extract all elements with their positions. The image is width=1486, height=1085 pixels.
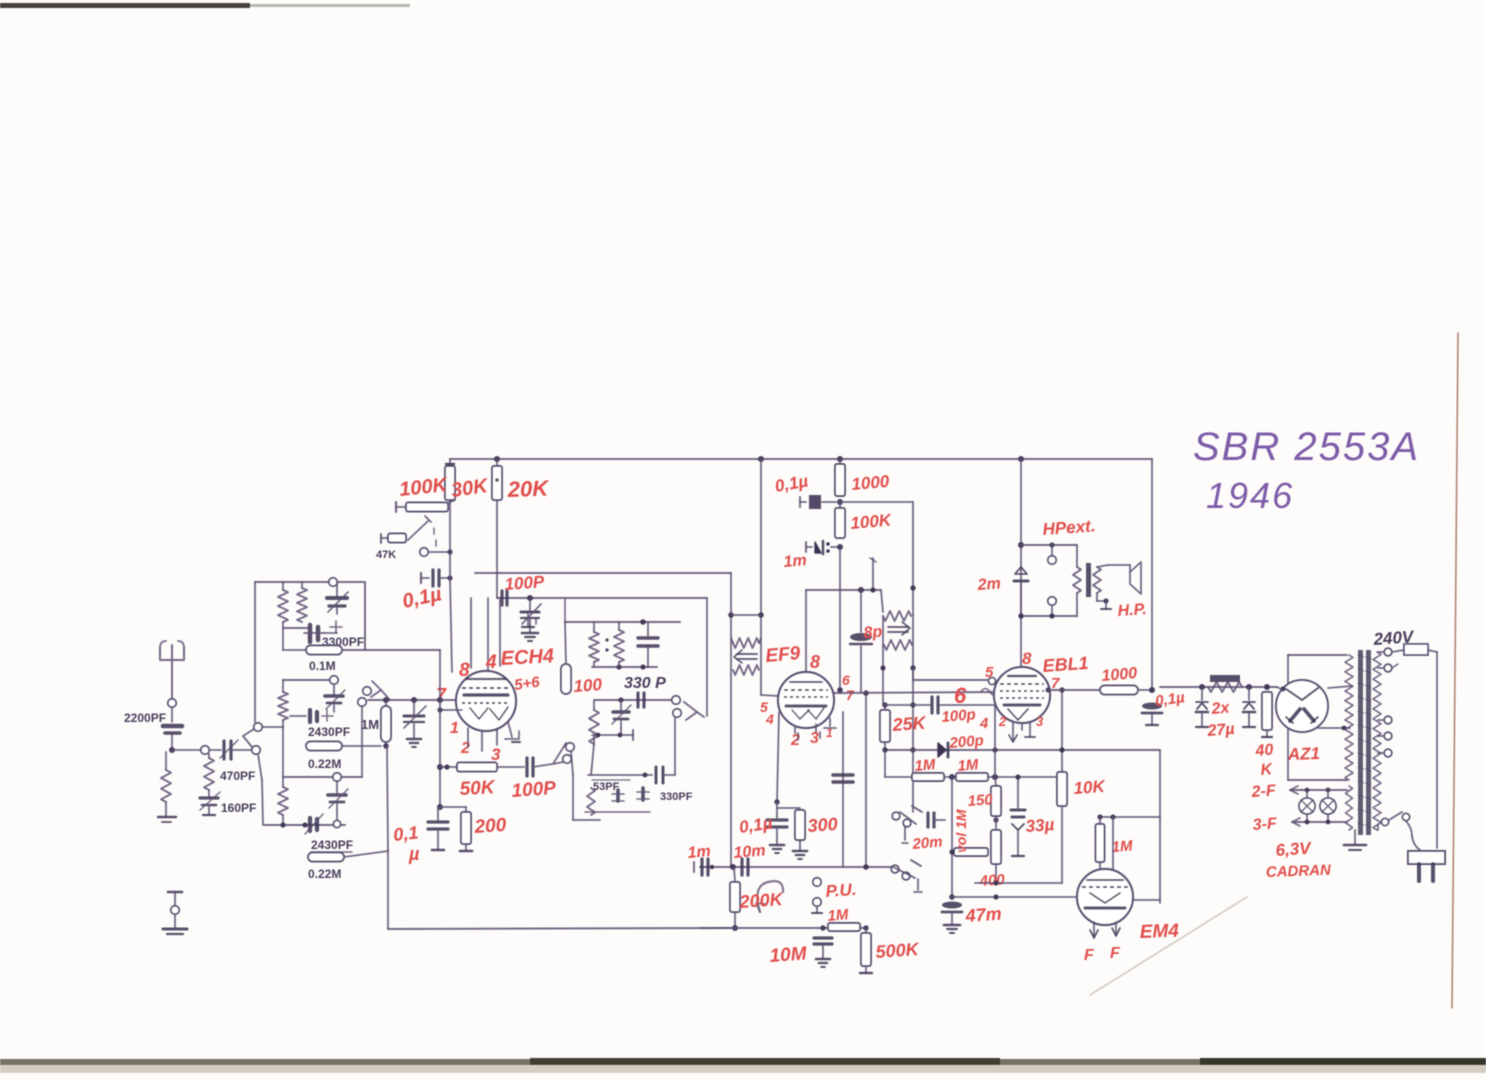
resistor 1M a [912,773,944,781]
svg-text:10m: 10m [733,842,766,862]
svg-text:1M: 1M [1111,838,1133,856]
capacitor 1m pu [694,859,714,875]
node 840-502 [837,499,843,505]
transformer heater winding [1346,786,1353,830]
svg-text:6,3V: 6,3V [1275,838,1313,860]
label 53PF [592,780,630,793]
wire HP bottom [1018,593,1077,619]
choke filter [1208,675,1242,692]
tap primary 1 [1378,664,1398,672]
transformer HV winding [1345,655,1353,780]
resistor 40K [1262,692,1272,737]
label 0.1M [309,659,336,673]
label 400 [978,871,1006,890]
capacitor 160PF [200,792,220,815]
transformer HP prim [1073,567,1081,593]
svg-text:500K: 500K [875,939,921,962]
wire selB down [361,706,363,777]
label HPext [1042,516,1096,539]
svg-text:5+6: 5+6 [513,673,541,693]
capacitor 27u a [1196,687,1208,727]
wire antenna row [172,749,201,751]
antenna [160,641,184,699]
wire y598 [497,597,707,599]
resistor 1M b [956,773,988,781]
label 27u [1206,721,1235,740]
wire 1152 to 750 [1152,690,1160,750]
svg-text:10M: 10M [769,943,809,967]
svg-text:2x: 2x [1210,699,1231,718]
label 0,1 cath [738,813,774,836]
svg-text:F: F [1110,945,1121,962]
node 873-590 [870,587,875,592]
svg-text:47K: 47K [376,549,396,561]
label EF9-8 [810,652,820,672]
node g1-440 [437,697,443,703]
tap primary 4 [1378,749,1392,757]
node filt2 [1246,684,1252,690]
wire 3-F [1292,818,1347,826]
wire filt [1160,686,1277,688]
label 20m [911,833,943,853]
label AZ1 [1286,744,1320,764]
svg-text:0.22M: 0.22M [308,867,341,881]
coil box B [283,680,334,692]
label EF9-4 [765,711,774,727]
wire tank sec bot [592,730,633,744]
node 735-928 [732,925,738,931]
node 733-867 [730,864,736,870]
resistor 0.1M [283,628,342,655]
label 40K [1254,741,1274,778]
pins ECH4 bottom [468,722,520,751]
wire pin col3 [499,598,501,666]
label 3300PF [322,635,364,649]
wire grid1 ECH4 [368,699,456,701]
wire EF9 in [761,695,779,696]
capacitor 0,1u input [421,570,453,586]
fuse [1392,644,1437,655]
wire HPext col [1018,542,1077,548]
label 150 [967,791,994,810]
resistor 400 [991,816,1001,883]
svg-text:100P: 100P [504,572,546,594]
wire 30K down [496,500,498,598]
svg-text:3-F: 3-F [1252,815,1278,834]
svg-text:vol 1M: vol 1M [953,809,969,853]
terminal PU2 [812,898,822,913]
wire 100K down [449,500,451,551]
capacitor 10M [814,928,832,967]
tap primary 3 [1378,732,1392,740]
coil tank2 [605,622,624,662]
capacitor 100P [497,758,552,776]
svg-text:200K: 200K [738,889,785,912]
label 1m cap [783,552,808,571]
label EF9-6 [842,672,850,688]
core HP [1086,563,1091,597]
wire to plug [1412,836,1420,850]
coil tankC [587,788,595,815]
terminal tank1 [672,696,680,704]
label 50K [459,777,496,800]
label 47K [376,549,396,561]
capacitor 200p [885,743,948,757]
svg-text:50K: 50K [459,777,496,800]
wire box bottom [975,880,1062,885]
svg-text:F: F [1084,947,1095,964]
label CADRAN [1266,862,1333,881]
wire tankC bot [585,811,650,813]
svg-text:7: 7 [846,687,855,703]
resistor 30K [492,459,502,500]
svg-text:2200PF: 2200PF [124,711,166,725]
label EBL1-5 [985,664,994,681]
svg-text:300: 300 [807,814,838,836]
plug [1408,851,1445,881]
wire y777 [885,750,1062,777]
svg-text:1M: 1M [914,756,937,775]
capacitor 100p tap [502,591,507,605]
wire y867 [700,866,893,868]
coil IF2b [884,640,912,650]
label F2 [1110,945,1121,962]
node 995-777 [992,705,998,780]
node EBL plate out [1045,687,1050,692]
node g1-414 [411,697,417,703]
wire selA up [254,582,256,722]
tube AZ1 [1276,680,1328,732]
pins EM4 [1090,922,1120,938]
label 330P [624,675,666,692]
switch band sel B [358,681,390,706]
node bus-1021 [1018,456,1024,462]
label 500K [875,939,921,962]
label 1M em4 [1111,838,1133,856]
label 33u [1025,815,1055,836]
scan bottom band [0,1058,1486,1073]
trimmer boxC [328,781,348,820]
title SBR 2553A [1193,425,1420,469]
switch tank left [553,743,574,764]
switch wave2a [892,806,922,843]
svg-text:160PF: 160PF [221,801,256,815]
svg-text:P.U.: P.U. [825,880,857,901]
capacitor 470PF [209,740,252,759]
label ECH4-3 [491,745,501,764]
capacitor tank sec [638,693,644,707]
node filt1 [1199,684,1205,690]
svg-text:1946: 1946 [1206,475,1294,516]
label EBL1-8 [1022,649,1032,668]
svg-text:8: 8 [1022,649,1032,668]
wire pin1 ECH4 [437,707,462,712]
wire x1160 [1152,690,1160,903]
label EBL1-7 [1051,675,1060,692]
svg-text:53PF: 53PF [593,781,620,793]
core IF2 [888,622,910,635]
label EBL1-2 [998,714,1007,729]
wire 1M down [387,746,388,929]
terminal tank2 [673,709,681,717]
node g1-386 [383,697,389,703]
capacitor 0,1u osc [428,807,448,850]
label 1M [361,717,379,732]
svg-text:470PF: 470PF [220,769,255,783]
label 2200PF [124,711,166,725]
wire EF9 topcap [805,590,807,674]
coil box A [255,582,365,650]
svg-text:H.P.: H.P. [1117,601,1147,620]
svg-text:SBR 2553A: SBR 2553A [1193,425,1420,469]
label 20K [506,476,550,503]
coil IF2a [883,611,911,621]
scan right line [1452,333,1458,1008]
label 2x [1210,699,1231,718]
scan crease bottom-right [1090,897,1247,995]
wire 0.22M to 1M [342,745,381,747]
label H.P. [1117,601,1147,620]
svg-text:6: 6 [954,683,967,708]
label 100P [511,778,557,802]
svg-text:1: 1 [450,720,459,737]
terminal EBL g [989,678,996,685]
svg-text:330 P: 330 P [624,675,666,692]
svg-text:0,1: 0,1 [392,822,419,845]
svg-text:1m: 1m [783,552,808,571]
wire mains right [1436,652,1438,848]
coil box C [283,776,362,778]
wire boxC bottom [264,822,345,827]
wire tank sec top [595,697,672,702]
label ECH4-1 [450,720,459,737]
label ECH4-8 [459,660,470,681]
resistor 1000 screen [835,459,845,496]
label 100K screen [850,510,894,533]
antenna terminal [168,699,176,722]
svg-text:330PF: 330PF [660,791,693,803]
wire boxB bottom [282,727,284,777]
wire boxA mid [283,627,310,629]
resistor 100K screen [835,502,845,538]
label 300 [807,814,838,836]
label 470PF [220,769,255,783]
label 1M b [957,756,980,775]
wire osc grid col [450,551,452,672]
terminal PU1 [813,878,821,886]
label 100p ebl [941,706,989,732]
label 100K [398,474,449,501]
label 100P top [504,572,546,594]
switch band sel A [243,723,262,754]
pins EBL1 [1009,722,1035,742]
wire AZ1 left [1277,687,1283,690]
capacitor 2430PF [290,710,333,722]
wire grid col [842,712,844,867]
capacitor 330PF ser [656,767,675,783]
svg-text:100P: 100P [511,778,557,802]
wire pin col2 [487,598,489,670]
label 160PF [221,801,256,815]
resistor 0.22M C [308,851,388,862]
label EF9-3 [810,730,819,747]
title 1946 [1206,475,1294,516]
transformer primary winding [1373,652,1381,830]
resistor 470 chain [204,754,214,796]
tube EBL1 [994,667,1050,723]
resistor boxA [278,582,288,628]
svg-text:150: 150 [967,791,994,810]
svg-text:200p: 200p [948,732,985,752]
svg-text:3: 3 [491,745,501,764]
switch wave2b [891,860,922,892]
wire AZ1 top [1288,655,1347,683]
trimmer to gnd [521,598,541,641]
node 861-590 [858,587,864,593]
ground transformer [1344,830,1366,850]
svg-text:100K: 100K [850,510,894,533]
ground ECH4 top [522,614,536,627]
wire y928 [700,925,869,930]
svg-text:6: 6 [842,672,850,688]
label 8p [863,623,883,642]
resistor 100ohm [561,622,571,694]
wire selC down [258,754,263,825]
label EF9-5 [760,699,768,715]
resistor 500K [860,928,872,973]
wire EM4 g2 [1112,817,1114,872]
wire 952 col [949,777,955,900]
label 1M a [914,756,937,775]
label 25K [891,713,928,735]
svg-text:2m: 2m [976,575,1001,594]
tube ECH4 [456,671,516,731]
label ECH4-7 [436,685,447,705]
label vol 1M [953,809,969,853]
node 952-777 [949,774,955,780]
switch tank right [684,702,704,720]
svg-text:8: 8 [810,652,820,672]
tap primary top [1378,648,1392,656]
switch wave [381,516,436,546]
label ECH4-4 [485,652,497,673]
svg-text:3: 3 [1036,714,1044,729]
node 913-588 [910,585,915,590]
coil IF1b [733,665,759,675]
wire EBL grid [913,668,988,680]
wire tank grid [706,598,708,716]
svg-text:47m: 47m [964,904,1002,927]
label 200K [738,889,785,912]
label 10K [1073,777,1107,798]
resistor ant gnd [158,752,176,822]
svg-text:4: 4 [765,711,774,727]
wire cath EF9 [774,712,779,805]
wire x1152 [1149,459,1155,693]
terminal boxC [333,773,341,781]
label 1M pu [827,906,850,925]
wire if1 top [731,614,761,616]
resistor 25K [880,702,890,752]
tank box top [565,598,680,625]
capacitor tank 330P [638,622,658,667]
svg-text:0.1M: 0.1M [309,659,336,673]
core IF1 [734,650,757,663]
coil IF1a [731,638,761,648]
wire AZ1 bottom [1288,729,1347,780]
trimmer boxB [325,684,345,712]
label 200p [948,732,985,752]
wire x731 [728,573,734,867]
ground probe lower-left [163,892,187,934]
wire EM4 top [1097,814,1160,819]
svg-text:1000: 1000 [1101,665,1138,685]
node ant [169,747,175,753]
svg-text:1M: 1M [827,906,850,925]
capacitor 20m [928,813,945,827]
switch contact [420,548,453,556]
transformer HP sec [1093,567,1101,593]
lamp 1 [1299,790,1315,822]
speaker HP [1097,562,1141,609]
lamp 2 [1320,790,1336,822]
wire pin4 col [470,598,472,668]
terminal HP1 [1048,545,1056,564]
label 2m [976,575,1001,594]
wire 866 up [863,690,869,870]
label 6,3V [1275,838,1313,860]
label 10m [733,842,766,862]
svg-text:µ: µ [408,844,420,864]
resistor 0.22M [306,742,342,751]
trimmer boxA [327,582,348,614]
capacitor 1m [806,541,840,554]
svg-text:CADRAN: CADRAN [1266,862,1333,881]
svg-text:27µ: 27µ [1206,721,1235,740]
resistor 47K [396,500,455,512]
wire y693 [834,689,998,696]
wire AZ1 ct [1318,686,1352,730]
svg-text:100: 100 [573,675,603,696]
label EBL1 [1042,653,1089,676]
wire if2 mid [882,616,884,705]
wire y705 [883,704,930,706]
resistor 1M pu [828,923,860,931]
tube EF9 [778,672,834,728]
resistor 100K [445,459,455,500]
label 0,1 osc [392,822,420,864]
label ECH4 [500,645,554,670]
node bus-761 [758,456,764,462]
wire tank left down [571,751,600,820]
svg-text:400: 400 [978,871,1006,890]
node bus-840 [837,456,843,462]
wire HT bus [450,458,1152,460]
resistor 1M [381,700,391,749]
wire tank right down [674,717,676,775]
resistor 10K [1057,687,1067,883]
capacitor 8p [850,590,872,693]
label 3-F [1252,815,1278,834]
label 2430PF C [311,838,353,852]
label 2-F [1250,782,1277,801]
node filt3 [1264,684,1270,690]
svg-text:40: 40 [1254,741,1274,760]
svg-text:EM4: EM4 [1139,921,1179,943]
resistor 50K [440,763,497,772]
svg-text:0.22M: 0.22M [308,757,341,771]
capacitor 33u [1011,774,1025,856]
